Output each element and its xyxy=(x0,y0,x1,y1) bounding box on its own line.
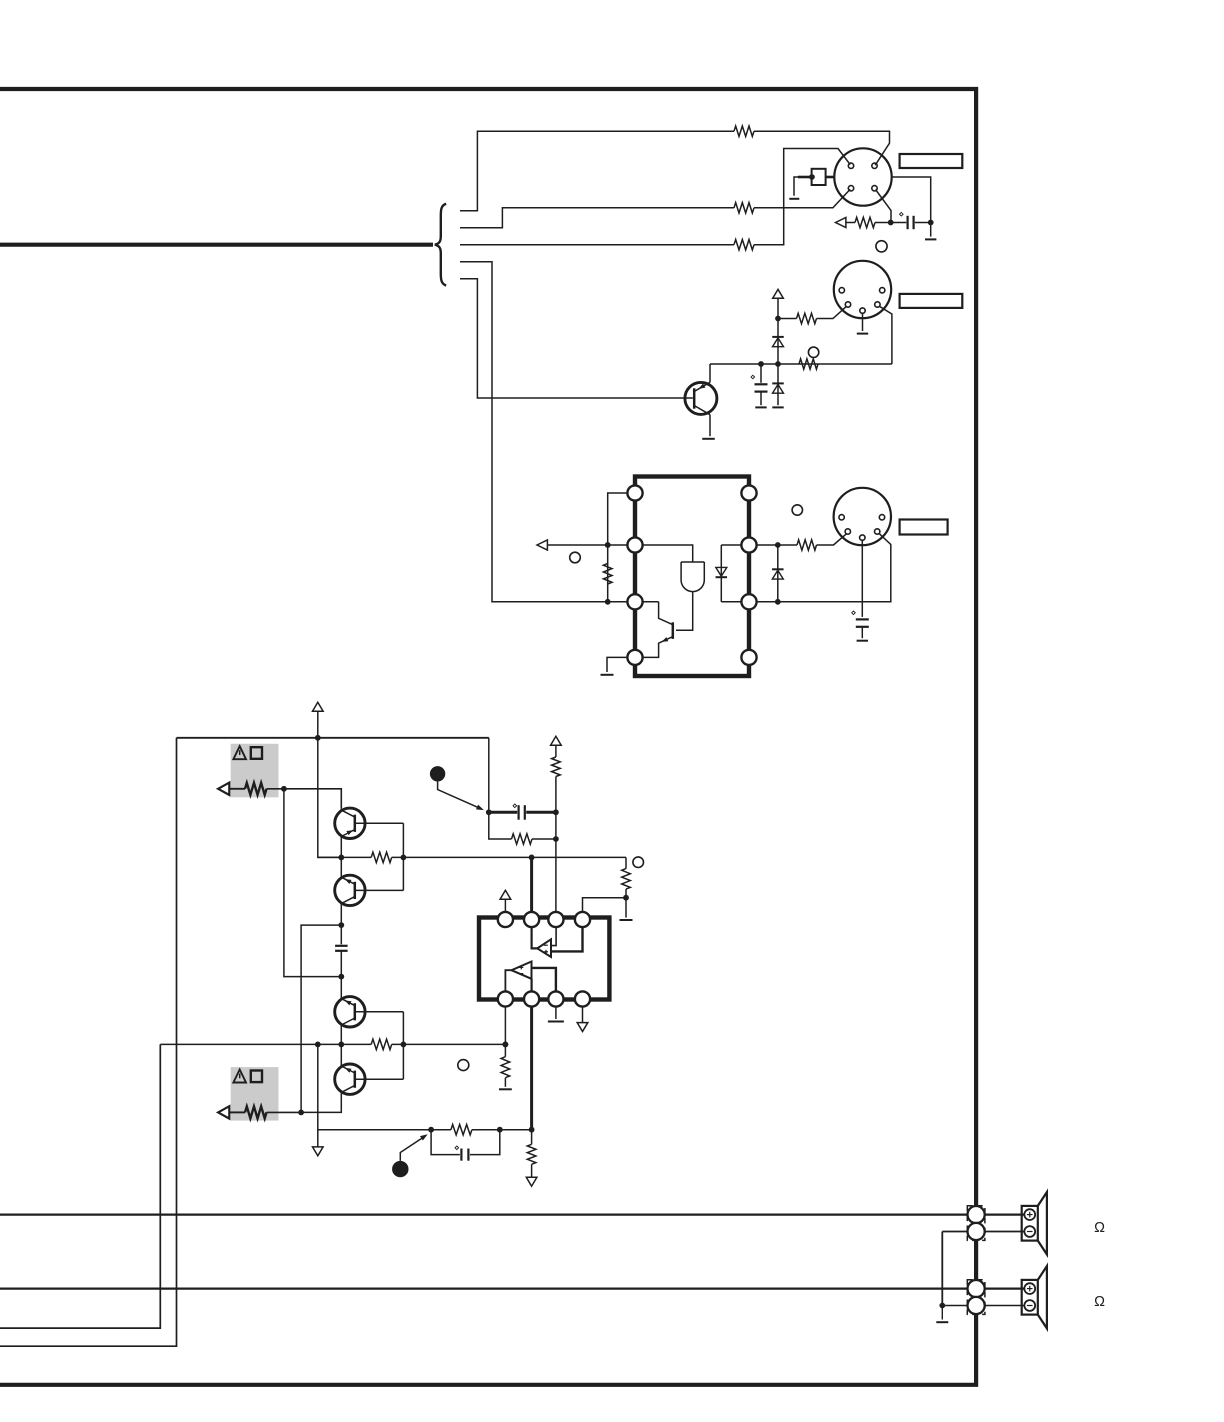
svg-text:Ω: Ω xyxy=(1094,1220,1105,1236)
svg-text:Ω: Ω xyxy=(1094,1294,1105,1310)
